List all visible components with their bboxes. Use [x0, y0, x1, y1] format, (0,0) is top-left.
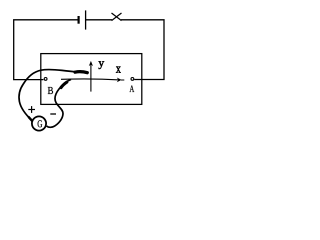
terminal A — [131, 78, 134, 81]
label - (galvanometer negative) — [50, 113, 56, 115]
battery BT1 positive plate — [85, 10, 87, 29]
label A — [129, 85, 134, 92]
x-axis — [61, 78, 124, 83]
probe wire from x-axis on sample to galvanometer negative terminal — [47, 79, 71, 127]
wire switch to terminal A (right branch) — [121, 20, 164, 80]
label y — [99, 61, 105, 69]
y-axis — [89, 61, 93, 92]
switch S1 (open, x symbol) — [112, 13, 122, 21]
sample box — [41, 54, 142, 105]
label + (galvanometer positive) — [28, 106, 35, 113]
galvanometer G — [32, 116, 46, 130]
label B — [48, 87, 53, 94]
terminal B — [44, 78, 47, 81]
label x — [116, 67, 121, 73]
battery BT1 negative plate — [77, 16, 79, 24]
wire battery negative to terminal B (left branch) — [14, 20, 78, 80]
wire battery positive to switch — [86, 19, 112, 21]
probe wire from sample interior to galvanometer positive terminal — [19, 70, 88, 122]
